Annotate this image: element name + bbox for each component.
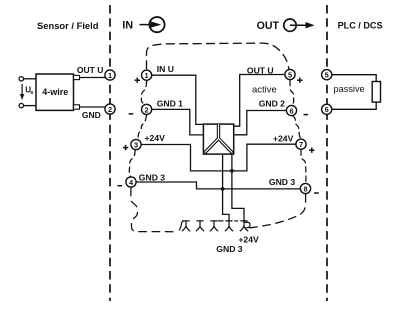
svg-text:GND 3: GND 3 [216, 244, 242, 254]
separator line: Sensor/Field boundary (dashed) [109, 5, 111, 301]
svg-text:1: 1 [108, 71, 112, 80]
module outline: jog between terminal 6 and 7 [293, 116, 301, 139]
polarity - at terminal 4 [118, 185, 123, 187]
module outline: hook after bus contact 5 [244, 222, 250, 229]
separator line: PLC/DCS boundary (dashed) [326, 5, 328, 301]
svg-text:GND 2: GND 2 [259, 99, 285, 109]
wire OUT U: module terminal 5 to isolator output + [234, 75, 285, 127]
polarity - at terminal 8 [314, 192, 319, 194]
polarity + at terminal 3 [123, 145, 128, 150]
OUT direction icon [284, 19, 315, 31]
svg-text:5: 5 [288, 70, 292, 79]
svg-text:OUT U: OUT U [247, 66, 274, 76]
module terminal 2 [142, 104, 152, 114]
module outline: rise into bus contact row [179, 221, 183, 230]
terminal 1 (field side) [105, 70, 115, 80]
svg-text:4-wire: 4-wire [42, 87, 68, 97]
svg-text:GND 3: GND 3 [139, 172, 165, 182]
svg-text:3: 3 [134, 140, 138, 149]
module outline: jog between terminal 1 and 2 [141, 81, 146, 104]
svg-text:IN U: IN U [157, 64, 174, 74]
polarity + at terminal 1 [135, 78, 140, 83]
svg-text:+24V: +24V [145, 133, 166, 143]
svg-text:OUT U: OUT U [77, 65, 103, 75]
svg-text:IN: IN [122, 20, 133, 32]
wire: isolator supply minus to bus contact 4 (GND 3) [223, 154, 229, 221]
svg-text:8: 8 [303, 184, 307, 193]
polarity + at terminal 7 [309, 148, 314, 153]
load resistor (passive) [372, 82, 380, 103]
wire: source bottom to 4-wire box [24, 105, 37, 107]
svg-text:OUT: OUT [257, 20, 280, 32]
bus contact 4 [225, 221, 233, 231]
wire IN U: module terminal 1 to isolator input + [152, 75, 203, 124]
bus contact 2 [196, 221, 204, 231]
module terminal 3 [131, 139, 141, 149]
wire: PLC terminal 5 to load resistor [332, 75, 376, 82]
polarity - at terminal 6 [304, 114, 309, 116]
module terminal 1 [142, 70, 152, 80]
svg-text:+24V: +24V [273, 133, 294, 143]
polarity + at terminal 5 [297, 78, 302, 83]
module outline: dash between bus contacts 4 and 5 [234, 220, 238, 222]
wire: load resistor to PLC terminal 6 [332, 102, 376, 109]
4-wire transmitter box [36, 74, 74, 110]
module outline: jog between terminal 3 and 4 [129, 150, 135, 177]
IN direction icon [140, 17, 165, 32]
module outline: jog between terminal 2 and 3 [137, 115, 146, 140]
svg-text:6: 6 [325, 105, 329, 114]
module terminal 7 [296, 139, 306, 149]
svg-text:7: 7 [299, 140, 303, 149]
svg-text:GND 3: GND 3 [269, 177, 295, 187]
connector tab bottom of 4-wire box [74, 105, 80, 109]
svg-text:5: 5 [325, 71, 329, 80]
Us source arrow [21, 84, 23, 95]
module outline: jog between terminal 7 and 8 [301, 150, 306, 183]
junction: +24V rail to isolator supply [230, 169, 234, 173]
module outline: below terminal 8, curve to bottom contact row [249, 194, 305, 228]
svg-text:Sensor / Field: Sensor / Field [37, 20, 99, 31]
module terminal 4 [126, 177, 136, 187]
isolator U1 (signal conditioner) [203, 124, 233, 154]
wire GND 2: module terminal 6 to isolator output - [234, 111, 287, 135]
bus contact 5 [240, 221, 248, 231]
module outline: top edge (dashed) [147, 43, 289, 69]
svg-text:s: s [30, 90, 33, 96]
svg-text:2: 2 [145, 105, 149, 114]
wire GND 1: module terminal 2 to isolator input - [152, 109, 203, 134]
svg-text:PLC / DCS: PLC / DCS [338, 21, 383, 31]
svg-text:GND: GND [82, 110, 101, 120]
module terminal 6 [286, 105, 296, 115]
module terminal 8 [300, 183, 310, 193]
isolation barrier Y symbol [205, 125, 233, 153]
module terminal 5 [285, 69, 295, 79]
wire: 4-wire box to field terminal 1 [80, 77, 106, 79]
terminal 5 (PLC side) [322, 70, 332, 80]
polarity - at terminal 2 [129, 113, 134, 115]
wire: source top to 4-wire box [24, 78, 37, 80]
terminal 6 (PLC side) [322, 104, 332, 114]
module outline: dash between bus contacts 3 and 4 [218, 220, 223, 222]
svg-text:passive: passive [334, 84, 365, 94]
module outline: below terminal 4 to bottom-left corner [131, 188, 177, 232]
wire: 4-wire box to field terminal 2 [80, 106, 106, 108]
module outline: jog between terminal 5 and 6 [290, 80, 294, 105]
connector tab top of 4-wire box [74, 75, 80, 79]
svg-text:2: 2 [108, 105, 112, 114]
svg-text:GND 1: GND 1 [157, 98, 183, 108]
terminal 2 (field side) [105, 104, 115, 114]
bus contact 3 [210, 221, 218, 231]
junction: GND 3 rail to isolator supply minus [221, 187, 225, 191]
svg-text:1: 1 [145, 71, 149, 80]
wire GND 3: terminal 4 to terminal 8 [136, 182, 300, 189]
svg-text:6: 6 [289, 106, 293, 115]
wire +24V: terminal 3 to terminal 7 supply run [141, 144, 295, 171]
wire: isolator supply plus to bus contact 5 (+24V) [232, 154, 244, 221]
source terminal top (open circle) [19, 77, 23, 81]
svg-text:active: active [252, 84, 277, 95]
bus contact 1 [182, 221, 190, 231]
source terminal bottom (open circle) [19, 103, 23, 107]
